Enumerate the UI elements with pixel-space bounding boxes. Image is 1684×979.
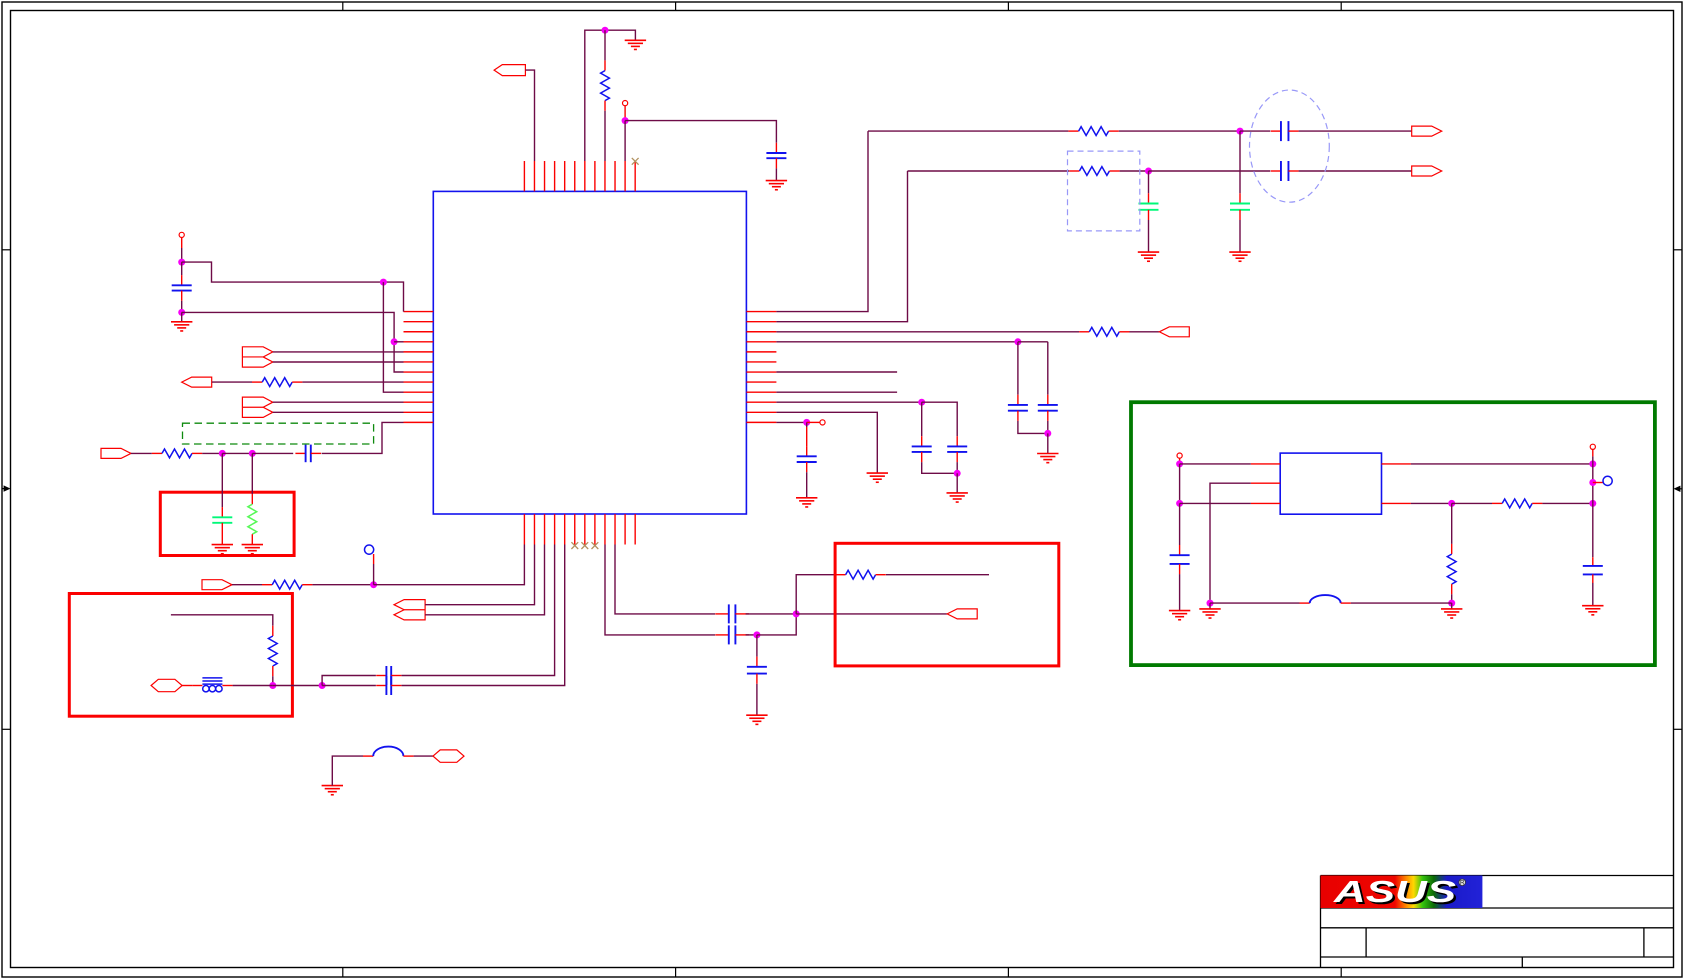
wire	[1018, 421, 1048, 434]
junction	[622, 117, 629, 124]
connector J6	[202, 580, 232, 590]
wire	[746, 613, 797, 615]
ground	[1138, 252, 1159, 261]
junction	[1448, 600, 1455, 607]
wire	[181, 262, 183, 275]
wire	[775, 168, 777, 180]
wire	[868, 130, 1068, 132]
wire	[776, 331, 1079, 333]
junction	[1589, 460, 1596, 467]
wire	[402, 545, 565, 686]
capacitor C7	[715, 625, 749, 644]
ground	[171, 312, 192, 331]
capacitor C13	[947, 436, 967, 462]
wire	[1451, 594, 1453, 603]
connector J5	[101, 448, 131, 458]
ground	[1199, 603, 1220, 618]
wire	[232, 584, 262, 586]
wire	[402, 545, 555, 676]
wire	[756, 684, 758, 715]
wire	[373, 554, 375, 564]
test point TP4	[820, 420, 825, 425]
no-connect X on U1 bottom pin 6	[571, 542, 578, 549]
wire	[1542, 502, 1592, 504]
junction	[370, 581, 377, 588]
wire	[908, 170, 1070, 172]
resistor R5	[262, 580, 312, 589]
junction	[178, 309, 185, 316]
wire	[776, 131, 868, 312]
wire	[222, 452, 252, 454]
ground	[1229, 252, 1250, 261]
wire	[394, 341, 403, 343]
wire	[252, 452, 293, 454]
test point TP6	[1590, 444, 1595, 449]
wire	[373, 564, 375, 585]
wire	[625, 121, 776, 143]
junction	[954, 470, 961, 477]
wire	[1210, 602, 1300, 604]
wire	[806, 427, 808, 446]
wire	[221, 453, 223, 507]
wire	[322, 685, 376, 687]
junction	[602, 27, 609, 34]
wire	[605, 545, 715, 635]
wire	[273, 411, 404, 413]
wire	[776, 412, 877, 473]
no-connect X on U1 bottom pin 8	[592, 542, 599, 549]
wire	[233, 685, 273, 687]
junction	[178, 259, 185, 266]
junction	[319, 682, 326, 689]
wire	[776, 341, 1018, 343]
wire	[1047, 342, 1049, 395]
connector J13	[1412, 166, 1442, 176]
junction	[793, 610, 800, 617]
wire	[1351, 602, 1452, 604]
junction	[219, 450, 226, 457]
junction	[1589, 500, 1596, 507]
wire	[1592, 464, 1594, 504]
wire	[756, 635, 758, 657]
red highlight box 3	[835, 543, 1059, 666]
wire	[604, 30, 606, 60]
connector J9 (hexagon)	[433, 750, 464, 762]
ground	[322, 786, 343, 795]
IC U1	[433, 191, 746, 514]
svg-text:ASUS: ASUS	[1333, 874, 1457, 909]
capacitor C1	[766, 143, 786, 169]
resistor R11	[1492, 499, 1542, 508]
dashed option box	[183, 423, 374, 444]
wire	[921, 402, 923, 436]
ground	[796, 498, 817, 507]
wire	[1592, 503, 1594, 557]
ground	[746, 715, 767, 724]
wire	[1299, 130, 1412, 132]
red highlight box 2	[69, 594, 292, 717]
inductor L2	[1300, 595, 1351, 603]
wire	[322, 676, 376, 686]
capacitor C12	[912, 436, 932, 462]
wire	[1239, 131, 1241, 193]
wire	[212, 381, 252, 383]
junction	[1589, 479, 1596, 486]
wire	[221, 533, 223, 545]
wire	[273, 401, 404, 403]
wire	[1411, 502, 1452, 504]
connector J2	[242, 347, 272, 367]
connector J7	[394, 600, 425, 620]
wire	[1593, 482, 1603, 484]
junction	[1176, 460, 1183, 467]
wire	[1120, 170, 1149, 172]
wire	[272, 676, 274, 685]
resistor R1	[601, 60, 610, 110]
right edge arrow	[1674, 486, 1683, 492]
wire	[776, 171, 907, 322]
inductor L1	[363, 747, 414, 757]
red highlight box 1	[160, 492, 294, 555]
wire	[525, 70, 534, 161]
wire	[776, 391, 897, 393]
wire	[757, 614, 796, 635]
junction	[803, 419, 810, 426]
ASUS logo	[1321, 874, 1483, 911]
green highlight box	[1131, 402, 1655, 665]
wire	[806, 472, 808, 498]
junction	[1237, 128, 1244, 135]
ground	[867, 473, 888, 482]
wire	[131, 452, 152, 454]
wire	[796, 613, 947, 615]
resistor R7	[835, 570, 885, 579]
wire	[1240, 130, 1270, 132]
wire	[171, 615, 273, 626]
ferrite bead FB1	[192, 678, 232, 692]
dashed highlight ellipse	[1250, 90, 1330, 202]
wire	[1180, 502, 1251, 504]
dashed option box 2	[1068, 151, 1140, 231]
wire	[383, 282, 403, 392]
test point TP3 (blue)	[365, 545, 374, 554]
resistor R4 (green)	[248, 494, 257, 544]
junction	[1145, 168, 1152, 175]
junction	[1448, 500, 1455, 507]
ground	[242, 545, 263, 554]
resistor R9	[1068, 127, 1118, 136]
wire	[1180, 463, 1251, 465]
junction	[391, 338, 398, 345]
wire	[956, 462, 958, 473]
wire	[776, 421, 806, 423]
ground	[766, 181, 787, 190]
wire	[1179, 503, 1181, 545]
wire	[796, 575, 835, 614]
wire	[624, 106, 626, 121]
wire	[922, 402, 958, 436]
svg-text:R: R	[1460, 880, 1465, 887]
resistor R8	[1079, 327, 1129, 336]
wire	[1018, 341, 1048, 343]
capacitor C9	[747, 657, 767, 684]
wire	[273, 351, 404, 353]
wire	[182, 685, 192, 687]
wire	[776, 371, 897, 373]
wire	[273, 685, 322, 687]
wire	[1179, 464, 1181, 504]
wire	[604, 111, 606, 161]
wire	[425, 545, 544, 615]
capacitor C17 (green)	[1230, 193, 1250, 220]
junction	[269, 682, 276, 689]
capacitor C5	[376, 666, 401, 685]
wire	[1239, 220, 1241, 252]
connector J10	[947, 609, 977, 619]
test point TP7 (blue)	[1603, 476, 1612, 485]
wire	[1017, 342, 1019, 395]
junction	[1207, 600, 1214, 607]
connector J4	[242, 397, 272, 417]
connector J11	[1159, 327, 1189, 337]
wire	[182, 262, 404, 312]
wire	[332, 756, 363, 786]
ground	[947, 493, 968, 502]
junction	[918, 399, 925, 406]
title block frame	[1321, 876, 1674, 968]
wire	[1210, 483, 1251, 603]
wire	[746, 634, 757, 636]
capacitor C10	[1008, 395, 1028, 421]
wire	[956, 473, 958, 493]
wire	[202, 452, 222, 454]
wire	[1047, 421, 1049, 434]
junction	[753, 631, 760, 638]
wire	[1411, 463, 1593, 465]
capacitor C15	[1271, 121, 1299, 141]
resistor R10	[1069, 167, 1119, 176]
no-connect X on U1 bottom pin 7	[581, 542, 588, 549]
wire	[302, 381, 403, 383]
capacitor C6	[376, 676, 401, 695]
wire	[585, 30, 636, 161]
U2 right pins	[1382, 464, 1411, 504]
wire	[181, 301, 183, 313]
capacitor C14	[797, 446, 817, 472]
wire	[1592, 449, 1594, 456]
wire	[1148, 171, 1150, 193]
connector J3	[182, 377, 212, 387]
wire	[1299, 170, 1412, 172]
wire	[182, 312, 404, 372]
ground	[1037, 454, 1058, 463]
wire	[1451, 503, 1453, 544]
wire	[312, 584, 373, 586]
U1 top pins	[524, 161, 635, 191]
wire	[181, 238, 183, 249]
wire	[1130, 331, 1160, 333]
resistor R6	[268, 626, 277, 676]
wire	[1452, 502, 1492, 504]
capacitor C18 (green)	[1139, 193, 1159, 220]
connector J12	[1412, 126, 1442, 136]
left edge arrow	[2, 485, 11, 491]
U1 left pins	[404, 312, 434, 423]
junction	[380, 279, 387, 286]
capacitor C3	[295, 445, 321, 463]
wire	[1148, 220, 1150, 252]
connector J1	[494, 65, 525, 76]
test point TP2	[179, 232, 184, 237]
junction	[1044, 430, 1051, 437]
wire	[806, 422, 808, 427]
ground	[1582, 606, 1603, 615]
ground	[625, 40, 646, 49]
capacitor C8	[715, 604, 749, 623]
junction	[249, 450, 256, 457]
wire	[251, 453, 253, 494]
wire	[1179, 458, 1181, 464]
connector J8 (hexagon)	[151, 679, 182, 691]
wire	[922, 462, 958, 473]
capacitor C11	[1038, 395, 1058, 421]
wire	[322, 422, 404, 453]
wire	[181, 248, 183, 262]
wire	[1592, 583, 1594, 606]
U2 left pins	[1251, 464, 1280, 504]
resistor R3	[152, 449, 202, 458]
junction	[1176, 500, 1183, 507]
wire	[615, 545, 715, 614]
ground	[212, 545, 233, 554]
wire	[414, 755, 433, 757]
capacitor C2	[172, 275, 192, 301]
wire	[374, 545, 525, 585]
test point TP1	[623, 101, 628, 106]
capacitor C20	[1583, 557, 1603, 583]
wire	[624, 121, 626, 161]
resistor R12	[1447, 544, 1456, 594]
wire	[1047, 433, 1049, 453]
ground	[1169, 611, 1190, 620]
junction	[1014, 338, 1021, 345]
wire	[1179, 574, 1181, 611]
wire	[1592, 456, 1594, 464]
wire	[273, 361, 404, 363]
capacitor C16	[1271, 161, 1299, 181]
IC U2	[1280, 453, 1381, 514]
U1 right pins	[746, 312, 776, 423]
resistor R2	[252, 378, 302, 387]
wire	[1119, 130, 1240, 132]
capacitor C4 (green)	[212, 507, 232, 533]
no-connect X on U1 top pin 12	[632, 158, 639, 165]
capacitor C19	[1170, 545, 1190, 574]
wire	[1149, 170, 1271, 172]
test point TP5	[1177, 453, 1182, 458]
wire	[807, 421, 820, 423]
wire	[776, 401, 921, 403]
wire	[886, 574, 989, 576]
ground	[1441, 603, 1462, 618]
U1 bottom pins	[524, 514, 635, 545]
wire	[425, 545, 534, 605]
